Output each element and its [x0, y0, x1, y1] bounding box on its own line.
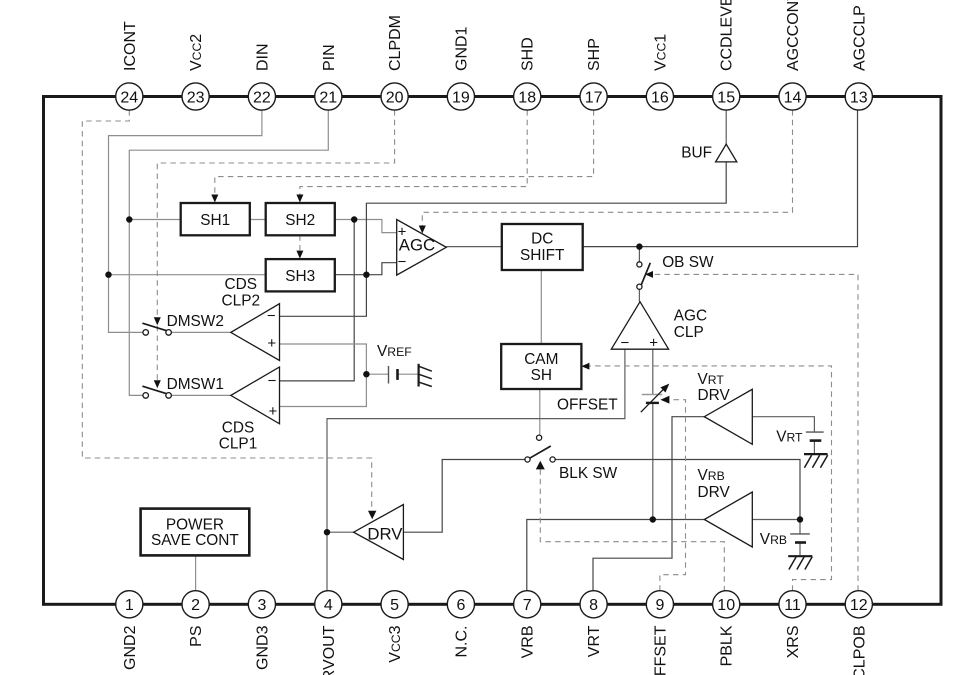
svg-text:14: 14 [784, 89, 802, 106]
pin labels bottom [122, 625, 869, 675]
wire VRB DRV output to pin7 VRB [527, 520, 705, 591]
svg-text:CCDLEVEL: CCDLEVEL [719, 0, 736, 71]
wire POWER SAVE CONT to pin2 PS [195, 555, 197, 590]
op-amp AGC [397, 220, 447, 276]
svg-text:PBLK: PBLK [719, 625, 736, 666]
svg-text:PS: PS [188, 626, 205, 647]
svg-text:BLK SW: BLK SW [559, 465, 618, 482]
node SH2 output [351, 216, 357, 222]
arrowhead ICONT into DRV [368, 511, 376, 520]
arrowhead OFFSET into trimmer [660, 396, 669, 404]
svg-text:AGCCONT: AGCCONT [785, 0, 802, 71]
svg-text:VCC2: VCC2 [188, 34, 205, 71]
dashed pin9 OFFSET to trimmer [660, 400, 686, 591]
wire VRT DRV output to pin8 VRT [593, 417, 704, 591]
pin numbers top 24-13 [120, 89, 867, 106]
switch BLK SW [525, 435, 555, 462]
dashed pin10 PBLK to BLK SW [540, 469, 724, 591]
svg-text:5: 5 [390, 597, 399, 614]
capacitor VRB [790, 534, 810, 543]
node SH3 output / BUF [363, 272, 369, 278]
svg-text:DC: DC [531, 230, 553, 247]
wire BLK SW right to VRB node [555, 460, 800, 520]
node pin21 line / SH1 input [126, 216, 132, 222]
wire AGC plus bracket [354, 220, 397, 233]
svg-text:+: + [267, 335, 276, 352]
ground VRB [788, 556, 812, 569]
svg-text:SH1: SH1 [200, 212, 230, 229]
svg-text:VRB: VRB [760, 531, 787, 548]
svg-text:AGCCLP: AGCCLP [851, 5, 868, 71]
svg-text:8: 8 [589, 597, 598, 614]
svg-text:VREF: VREF [377, 343, 412, 360]
switch DMSW1 [142, 386, 171, 398]
svg-text:CAM: CAM [524, 351, 558, 368]
svg-text:VRB: VRB [520, 626, 537, 659]
pin labels top [122, 0, 869, 71]
wire OB SW stubs [638, 247, 640, 302]
arrowhead CLPDM into DMSW2 [154, 317, 161, 325]
svg-text:ICONT: ICONT [122, 21, 139, 71]
capacitor VREF [389, 366, 398, 384]
wire AGC CLP plus through variable cap to VRB node [652, 349, 654, 519]
arrowhead CLPDM into DMSW1 [154, 380, 161, 388]
svg-text:6: 6 [456, 597, 465, 614]
svg-text:GND2: GND2 [122, 625, 139, 670]
node DC SHIFT output [636, 243, 642, 249]
dashed pin18 SHD to SH2 [300, 110, 527, 194]
svg-text:DRV: DRV [367, 524, 403, 543]
wire DC SHIFT to CAM SH [540, 270, 542, 344]
svg-text:−: − [267, 308, 276, 325]
wire BUF output to CDS CLP2 minus [280, 162, 727, 316]
arrowhead PBLK into BLK SW [536, 461, 545, 470]
node VRB cap [797, 516, 803, 522]
dashed pin14 AGCCONT to AGC [422, 110, 792, 225]
svg-text:BUF: BUF [681, 145, 712, 162]
svg-text:DIN: DIN [254, 43, 271, 71]
svg-text:+: + [269, 403, 278, 420]
wire DMSW2 to CDS CLP2 apex [171, 331, 230, 333]
svg-text:VCC1: VCC1 [652, 34, 669, 71]
arrowhead SHD into SH2 [296, 195, 303, 203]
svg-text:16: 16 [651, 89, 669, 106]
wire node1 to CDS CLP1 minus [280, 220, 355, 381]
svg-text:VCC3: VCC3 [387, 625, 404, 662]
ground VREF [419, 364, 432, 387]
svg-text:−: − [268, 372, 277, 389]
dashed pin11 XRS to CAM SH [589, 366, 831, 591]
svg-text:SH2: SH2 [285, 212, 315, 229]
comparator CDS CLP1 [231, 367, 280, 424]
wire SH3 input [109, 274, 266, 276]
svg-text:DMSW1: DMSW1 [167, 376, 224, 393]
svg-text:DMSW2: DMSW2 [167, 313, 224, 330]
dashed SH2 to SH3 [299, 235, 301, 250]
svg-text:SAVE CONT: SAVE CONT [151, 532, 239, 549]
driver VRT DRV [704, 389, 752, 444]
svg-text:DRV: DRV [698, 387, 731, 404]
svg-text:21: 21 [319, 89, 337, 106]
wire VRT cap stub [813, 441, 815, 455]
block SH2 [266, 203, 335, 235]
wire BLK SW left to DRV input [403, 460, 525, 533]
svg-text:CDS: CDS [225, 276, 258, 293]
svg-text:1: 1 [125, 597, 134, 614]
switch OB SW [637, 262, 650, 290]
svg-text:20: 20 [386, 89, 404, 106]
svg-text:SHIFT: SHIFT [520, 247, 565, 264]
dashed pin24 ICONT to DRV [82, 110, 371, 511]
svg-text:OFFSET: OFFSET [652, 625, 669, 675]
svg-text:12: 12 [850, 597, 868, 614]
wire SH chain input [129, 219, 354, 221]
svg-text:23: 23 [187, 89, 205, 106]
wire AGC output to DC SHIFT [446, 246, 502, 248]
svg-text:13: 13 [850, 89, 868, 106]
wire DC SHIFT output to pin13 AGCCLP [583, 110, 858, 247]
svg-text:15: 15 [717, 89, 735, 106]
wire VRB DRV input to VRB cap node [752, 519, 800, 521]
svg-text:N.C.: N.C. [453, 626, 470, 658]
dashed pin17 SHP to SH1 [215, 110, 594, 194]
svg-text:10: 10 [717, 597, 735, 614]
svg-text:VRT: VRT [586, 625, 603, 657]
svg-text:22: 22 [253, 89, 271, 106]
svg-text:AGC: AGC [674, 308, 707, 325]
svg-text:−: − [398, 253, 407, 270]
svg-text:2: 2 [191, 597, 200, 614]
svg-text:CDS: CDS [222, 420, 255, 437]
svg-text:OB SW: OB SW [662, 254, 714, 271]
svg-text:CLPOB: CLPOB [851, 626, 868, 675]
capacitor VRT [806, 432, 824, 441]
svg-text:+: + [398, 224, 407, 241]
svg-text:4: 4 [324, 597, 333, 614]
svg-text:−: − [621, 334, 630, 351]
svg-text:GND3: GND3 [254, 625, 271, 670]
pin circles top [116, 83, 873, 110]
wire DRV output node [327, 531, 354, 533]
trimmer OFFSET variable capacitor [641, 384, 670, 413]
block SH3 [266, 259, 335, 291]
wire DMSW1 to CDS CLP1 apex [171, 394, 230, 396]
svg-text:OFFSET: OFFSET [557, 397, 618, 414]
comparator CDS CLP2 [231, 304, 280, 361]
switch DMSW2 [142, 323, 171, 335]
wire pin15 CCDLEVEL to BUF [725, 110, 727, 144]
wire SH3 output / AGC minus bracket [335, 263, 397, 275]
svg-text:CLP2: CLP2 [222, 293, 261, 310]
pin circles bottom [116, 591, 873, 618]
ground VRT [804, 454, 828, 468]
dashed pin12 CLPOB to OB SW [653, 274, 858, 590]
arrowhead SHP into SH1 [211, 195, 218, 203]
svg-text:17: 17 [585, 89, 603, 106]
svg-text:SHP: SHP [586, 38, 603, 71]
svg-text:VRT: VRT [776, 429, 803, 446]
svg-text:CLP: CLP [674, 324, 704, 341]
arrowhead AGCCONT into AGC [419, 226, 426, 234]
node DRV output [324, 529, 330, 535]
svg-text:PIN: PIN [321, 44, 338, 71]
wire AGC CLP minus to OFFSET line to pin4 DRVOUT [327, 349, 625, 591]
svg-text:3: 3 [257, 597, 266, 614]
svg-text:SH3: SH3 [285, 268, 315, 285]
svg-text:GND1: GND1 [453, 26, 470, 71]
wire pin22 DIN stub to DMSW2 [109, 110, 262, 332]
block POWER SAVE CONT [141, 509, 250, 556]
svg-text:11: 11 [784, 597, 801, 614]
svg-text:CLP1: CLP1 [219, 436, 258, 453]
svg-text:VRT: VRT [698, 371, 725, 388]
node AGC CLP plus / VRB out [650, 516, 656, 522]
svg-text:VRB: VRB [698, 467, 725, 484]
svg-text:+: + [649, 334, 658, 351]
svg-text:CLPDM: CLPDM [387, 15, 404, 71]
wire VREF node to capacitor and ground [366, 373, 418, 375]
svg-text:DRV: DRV [698, 484, 731, 501]
buffer BUF [716, 144, 737, 162]
driver DRV [354, 505, 404, 560]
svg-text:DRVOUT: DRVOUT [321, 625, 338, 675]
svg-text:XRS: XRS [785, 626, 802, 659]
dashed pin20 CLPDM to DMSW2 DMSW1 [157, 110, 394, 380]
svg-text:9: 9 [655, 597, 664, 614]
wire CAM SH to BLK SW [539, 389, 541, 435]
wire VRT DRV input to VRT cap [752, 417, 814, 432]
wire pin21 PIN stub to DMSW1 [129, 110, 328, 395]
arrowhead SH2 into SH3 [296, 251, 303, 259]
chip outline [44, 97, 942, 605]
svg-text:POWER: POWER [166, 517, 224, 534]
svg-text:SH: SH [531, 367, 552, 384]
node pin22 line / SH3 input [105, 272, 111, 278]
svg-text:18: 18 [518, 89, 536, 106]
block SH1 [181, 203, 250, 235]
svg-text:24: 24 [120, 89, 138, 106]
block CAM SH [501, 344, 581, 389]
pin numbers bottom 1-12 [125, 597, 868, 614]
wire VRB node to cap [799, 520, 801, 557]
arrowhead CLPOB into OB SW [645, 271, 653, 278]
svg-text:7: 7 [523, 597, 532, 614]
arrowhead XRS into CAM SH [581, 363, 589, 370]
op-amp AGC CLP [611, 302, 668, 350]
driver VRB DRV [704, 492, 752, 547]
svg-text:19: 19 [452, 89, 470, 106]
wire CDS CLP2 plus / VREF / CDS CLP1 plus [280, 344, 367, 407]
block DC SHIFT [502, 224, 583, 270]
svg-text:SHD: SHD [520, 37, 537, 71]
node VREF [363, 371, 369, 377]
